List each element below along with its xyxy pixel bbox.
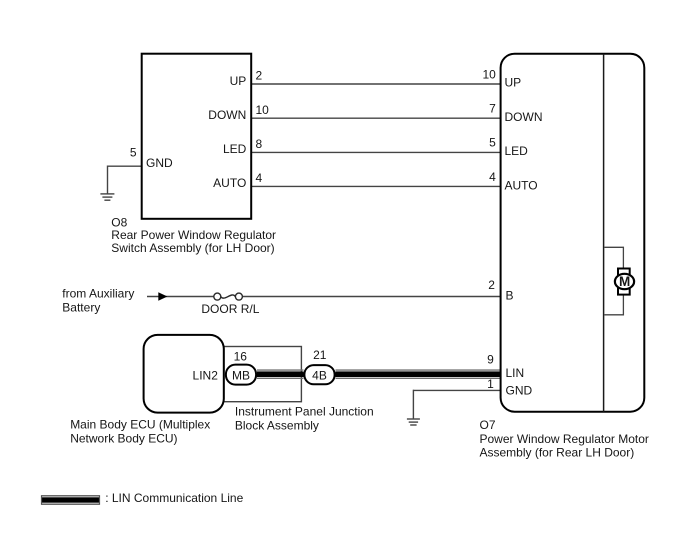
svg-text:5: 5 [489,136,496,150]
svg-text:LIN: LIN [506,366,525,380]
svg-text:4B: 4B [312,369,327,383]
svg-text:Main Body ECU (Multiplex: Main Body ECU (Multiplex [70,418,210,432]
svg-text:DOWN: DOWN [208,108,246,122]
svg-text:M: M [619,274,630,289]
svg-text:GND: GND [506,383,533,397]
svg-text:2: 2 [488,278,495,292]
svg-text:Instrument Panel Junction: Instrument Panel Junction [235,405,374,419]
svg-text:7: 7 [489,102,496,116]
svg-text:10: 10 [256,103,270,117]
svg-text:Rear Power Window Regulator: Rear Power Window Regulator [111,228,276,242]
svg-text:LED: LED [223,142,247,156]
svg-text:16: 16 [234,349,248,363]
svg-text:Battery: Battery [62,301,100,315]
svg-text:DOOR R/L: DOOR R/L [201,302,259,316]
svg-text:2: 2 [256,69,263,83]
svg-text:4: 4 [256,171,263,185]
svg-text:GND: GND [146,156,173,170]
svg-text:8: 8 [256,137,263,151]
svg-text:Block Assembly: Block Assembly [235,419,319,433]
svg-text:Assembly (for Rear LH Door): Assembly (for Rear LH Door) [480,445,635,459]
svg-text:Switch Assembly (for LH Door): Switch Assembly (for LH Door) [111,241,274,255]
svg-text:B: B [506,288,514,302]
svg-text:DOWN: DOWN [505,110,543,124]
svg-text:UP: UP [505,76,522,90]
svg-text:O7: O7 [480,418,496,432]
svg-text:LED: LED [505,144,529,158]
svg-text:MB: MB [232,368,250,382]
svg-text:21: 21 [313,348,327,362]
svg-text:AUTO: AUTO [505,178,538,192]
svg-text:from Auxiliary: from Auxiliary [62,286,134,300]
svg-text:AUTO: AUTO [213,176,246,190]
svg-text:LIN2: LIN2 [193,369,219,383]
svg-text:1: 1 [487,377,494,391]
svg-text:10: 10 [482,67,496,81]
svg-text:4: 4 [489,170,496,184]
svg-text:Power Window Regulator Motor: Power Window Regulator Motor [480,432,649,446]
svg-text:Network Body ECU): Network Body ECU) [70,432,177,446]
svg-text:UP: UP [230,74,247,88]
svg-text:9: 9 [487,353,494,367]
svg-text:: LIN Communication Line: : LIN Communication Line [105,491,243,505]
svg-text:5: 5 [130,145,137,159]
